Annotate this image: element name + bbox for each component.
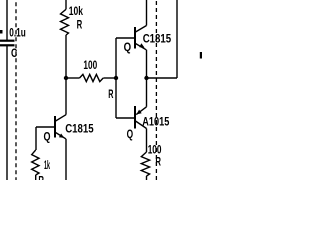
Q1 collector diagonal [136,26,147,33]
junction node emitter rail [144,76,148,80]
resistor R 10k zigzag [61,9,69,35]
wire node R vertical [115,38,117,118]
resistor R 100 horizontal leads [66,77,80,79]
resistor R 100 bottom stub [146,176,148,180]
dashed boundary line left [15,0,17,180]
svg-text:Q: Q [124,40,132,54]
Q2 base wire [116,117,135,119]
Q1 emitter arrowhead [139,43,144,47]
Q3 collector diagonal [56,115,66,121]
dashed boundary line right [155,0,157,180]
resistor R 100 bottom zigzag [141,152,149,176]
transistor Q3 C1815 base bar [54,116,56,138]
wire left rail top [6,0,8,40]
svg-text:R: R [38,174,44,181]
svg-text:Q: Q [44,130,51,144]
wire base Q3 [36,126,55,128]
svg-text:100: 100 [83,58,97,72]
Q2 collector wire down [146,129,148,153]
wire zigzag to node R [103,77,116,79]
resistor R 1k zigzag [32,150,39,175]
Q2 collector diagonal [136,121,147,129]
wire base Q1 [116,37,135,39]
wire Q3 base to 1k [35,127,37,150]
svg-text:Q: Q [127,127,134,141]
wire emitter node to right rail [147,77,178,79]
svg-text:R: R [155,155,161,169]
capacitor C plates [0,40,15,42]
junction node R [114,76,118,80]
junction node left [64,76,68,80]
Q1 collector wire up [146,0,148,26]
Q3 emitter arrowhead [59,134,64,138]
resistor R 1k stub [35,175,37,180]
svg-text:A1015: A1015 [142,114,169,128]
svg-text:C1815: C1815 [143,32,172,46]
wire 10k to node [65,35,67,78]
wire right rail [176,0,178,78]
resistor R 10k stub [65,0,67,9]
svg-text:R: R [108,87,113,101]
clipped glyph right edge [200,52,202,59]
Q3 collector wire up [65,78,67,115]
Q1 emitter diagonal [136,44,147,50]
svg-text:0.1u: 0.1u [9,25,26,39]
transistor Q1 C1815 base bar [134,27,136,49]
svg-text:C: C [11,46,18,60]
transistor Q2 A1015 emitter diagonal [136,107,146,115]
svg-text:10k: 10k [69,4,83,18]
Q3 emitter diagonal [56,133,66,139]
svg-text:R: R [77,18,83,32]
svg-text:C1815: C1815 [65,122,94,136]
wire left rail bottom [6,45,8,180]
Q2 emitter arrowhead [136,110,141,115]
Q1 emitter wire down [146,50,148,107]
resistor R 100 zigzag [80,74,104,81]
svg-text:1k: 1k [44,158,50,172]
clipped glyph left edge [0,30,3,34]
Q2 base bar [134,106,136,129]
Q3 emitter wire down [65,139,67,180]
